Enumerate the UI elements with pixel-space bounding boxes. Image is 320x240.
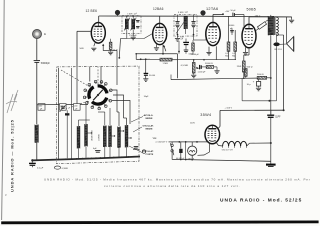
wire lamp top: [191, 142, 193, 146]
wire: [79, 119, 90, 121]
fixed capacitor dark: [65, 113, 69, 115]
resistor 50000 ohm: [206, 66, 213, 69]
wire antenna tap: [37, 104, 59, 106]
svg-text:50 000: 50 000: [149, 75, 156, 77]
bus junction: [71, 158, 73, 160]
svg-text:I M.F. 12ª: I M.F. 12ª: [128, 12, 137, 15]
wire: [192, 51, 194, 54]
wire: [193, 35, 195, 40]
trimmer cap: [136, 21, 140, 22]
bus junction: [118, 156, 120, 158]
wire: [201, 66, 206, 68]
bus junction: [87, 158, 89, 160]
coil IF1 secondary: [132, 19, 135, 30]
switch lever: [170, 143, 174, 155]
resistor diagonal tone: [257, 22, 266, 30]
heater chain loops: [223, 141, 247, 146]
wire: [245, 76, 247, 78]
capacitor 0.1uF dark: [29, 163, 36, 165]
capacitor 50000pF AVC dark: [144, 73, 149, 75]
svg-text:50Ω: 50Ω: [80, 48, 84, 50]
bus junction: [91, 157, 93, 159]
bus junction: [76, 158, 78, 160]
coil L4: [103, 126, 106, 148]
junction: [132, 15, 134, 17]
wire: [185, 142, 187, 160]
junction: [268, 100, 270, 102]
ground: [214, 71, 219, 74]
capacitor 40000pF dark: [179, 149, 182, 153]
wire box left rail: [58, 68, 60, 159]
wire: [110, 49, 112, 51]
svg-text:0,1 μF: 0,1 μF: [37, 168, 44, 170]
resistor 1 Mohm: [160, 58, 172, 61]
svg-text:1.000 pF: 1.000 pF: [198, 72, 207, 74]
wire: [185, 29, 187, 34]
wire: [104, 112, 106, 126]
resistor 12k grid: [109, 42, 112, 49]
wire: [85, 105, 87, 125]
wire: [103, 50, 117, 52]
wire: [202, 15, 204, 17]
bus junction: [82, 158, 84, 160]
ground: [289, 20, 294, 23]
svg-text:50000: 50000: [229, 25, 235, 27]
leader line: [131, 117, 143, 123]
capacitor 100pF dark: [183, 42, 189, 44]
wire cathode: [156, 44, 158, 47]
wire: [132, 16, 134, 18]
tube 12TA6 V3: [206, 22, 220, 45]
tube 35W4 V5: [205, 125, 220, 144]
coil tap: [112, 135, 115, 137]
svg-text:12TA6: 12TA6: [206, 7, 218, 11]
wire: [177, 35, 179, 38]
wire: [177, 15, 179, 22]
tuning arrow: [176, 17, 188, 34]
wire top bus: [99, 15, 292, 18]
wire: [119, 39, 120, 58]
svg-text:12BA6: 12BA6: [153, 7, 164, 11]
resistor 115 ohm: [245, 69, 248, 77]
speaker voice coil: [273, 42, 279, 46]
wire: [275, 16, 277, 18]
coil IF1 primary: [125, 19, 128, 30]
wire: [234, 51, 236, 59]
handwritten pencil marks: [6, 90, 18, 113]
wire switch to node: [113, 95, 124, 118]
wire: [66, 110, 68, 113]
wire B+ horizontal: [220, 109, 284, 111]
wire: [100, 67, 102, 85]
capacitor 200pF box: [38, 104, 45, 111]
wire plate up: [212, 15, 214, 23]
wire: [172, 59, 178, 61]
svg-text:200: 200: [74, 105, 77, 107]
coil tap: [128, 137, 131, 139]
dial lamp: [188, 146, 197, 155]
wire: [135, 54, 137, 60]
leader line: [129, 146, 142, 153]
bus junction: [128, 156, 130, 158]
wire to cone: [280, 43, 287, 45]
svg-text:corrente continua o alternata: corrente continua o alternata dalla rete…: [104, 184, 241, 188]
coil IF2: [184, 16, 187, 29]
switch contacts: [95, 82, 97, 84]
ground: [243, 53, 248, 56]
junction: [177, 34, 179, 36]
wire: [270, 117, 272, 143]
svg-text:+ 105 V: + 105 V: [225, 108, 233, 110]
tube 50B5 V4: [242, 24, 256, 48]
wire: [218, 127, 220, 129]
resistor 500 ohm cathode: [242, 61, 245, 72]
wire: [177, 27, 179, 34]
wire: [243, 55, 245, 61]
capacitor antenna series: [34, 61, 40, 63]
wire plate up: [98, 16, 100, 23]
coil tap: [121, 130, 124, 132]
wire: [109, 108, 111, 126]
svg-text:16μF: 16μF: [144, 96, 150, 98]
svg-text:MEDIE: MEDIE: [146, 118, 153, 120]
wire coil to bus: [109, 147, 111, 158]
wire secondary top: [276, 16, 291, 18]
wire: [118, 112, 120, 126]
wire: [266, 20, 269, 22]
wire: [66, 116, 68, 159]
wire coil to bus: [104, 147, 106, 158]
wire: [110, 39, 112, 42]
wire: [145, 59, 147, 73]
capacitor 50000pF: [230, 31, 234, 32]
heater taps: [222, 146, 224, 148]
junction bus end: [31, 159, 33, 161]
wire: [228, 16, 230, 42]
svg-text:50000pF: 50000pF: [41, 63, 51, 65]
wire secondary bottom: [276, 34, 278, 43]
capacitor IF2 right: [191, 22, 195, 24]
bus junction: [104, 157, 106, 159]
junction: [118, 57, 120, 59]
svg-text:MEDIE: MEDIE: [146, 129, 153, 131]
bus junction: [100, 157, 102, 159]
wire: [71, 68, 73, 158]
wire plate: [219, 110, 221, 126]
capacitor 200pF box 2: [60, 104, 67, 111]
wire: [291, 17, 293, 20]
bus junction: [51, 159, 53, 161]
resistor grid leak: [192, 43, 195, 51]
capacitor: [95, 151, 100, 153]
wire: [180, 142, 182, 149]
wire: [256, 29, 259, 31]
tube 12BA6 V2: [153, 23, 167, 44]
svg-text:0,5 MΩ: 0,5 MΩ: [181, 65, 188, 67]
wire IF1 down: [126, 30, 128, 39]
wire tube to chain: [216, 142, 223, 147]
bus junction: [126, 156, 128, 158]
wire speaker frame: [286, 17, 288, 44]
junction: [162, 53, 164, 55]
junction blob: [115, 10, 120, 15]
wire heater to rail: [250, 142, 271, 144]
rotary band switch S1 ring: [85, 82, 111, 108]
wire primary bottom B+: [270, 35, 272, 78]
wire: [193, 73, 195, 75]
wire: [213, 14, 223, 16]
junction: [36, 159, 38, 161]
junction: [140, 58, 142, 60]
svg-text:⌀ 110/127 V: ⌀ 110/127 V: [156, 140, 168, 143]
wire switch to node: [112, 90, 118, 112]
dashed link: [58, 101, 88, 112]
audio return line: [171, 78, 257, 80]
wire coil to bus: [78, 147, 80, 159]
junction: [270, 142, 272, 144]
wire: [185, 52, 187, 54]
tuning arrow: [124, 18, 130, 31]
wire: [124, 117, 127, 119]
coil antenna L1: [35, 125, 38, 143]
resistor 0.1M diode load: [227, 42, 230, 51]
wire: [89, 67, 91, 82]
wire: [216, 67, 218, 70]
wire lamp bottom: [191, 155, 193, 160]
junction: [283, 109, 285, 111]
capacitor: [184, 50, 189, 52]
svg-text:CORTE: CORTE: [99, 133, 101, 141]
svg-text:500 Ω: 500 Ω: [247, 67, 253, 69]
wire: [192, 40, 194, 43]
wire curve: [198, 152, 210, 155]
wire to 12TA6 grid: [194, 39, 207, 41]
junction: [222, 13, 224, 15]
wire cathode: [248, 48, 250, 55]
tuning arrow: [131, 18, 137, 31]
coil oscillator corte L2: [77, 126, 80, 149]
svg-text:RF 151: RF 151: [275, 49, 283, 51]
capacitor: [61, 107, 65, 108]
page left edge: [2, 0, 5, 220]
wire: [98, 111, 105, 113]
ground: [143, 79, 148, 82]
mains rail: [172, 141, 210, 143]
wire: [235, 14, 245, 16]
wire: [241, 78, 243, 101]
wire: [31, 165, 33, 167]
junction: [178, 51, 180, 53]
wire B+ rail: [283, 35, 285, 110]
capacitor IF2 right2: [191, 25, 195, 27]
svg-text:UNDA RADIO — Mod. 52|25: UNDA RADIO — Mod. 52|25: [9, 119, 14, 192]
wire: [117, 15, 119, 17]
capacitor IF2 left: [175, 22, 179, 24]
wire: [193, 15, 195, 22]
wire: [277, 34, 284, 36]
wire: [205, 36, 207, 40]
wire: [270, 15, 272, 17]
junction: [193, 34, 195, 36]
wire: [270, 101, 272, 115]
ground: [91, 48, 96, 51]
wire: [177, 54, 179, 79]
svg-text:≠: ≠: [5, 193, 7, 197]
resistor 0.5M: [234, 42, 237, 51]
svg-text:200: 200: [39, 105, 42, 107]
bus junction: [133, 156, 135, 158]
wire grid lead: [76, 31, 78, 66]
svg-text:II M.F. 12ª: II M.F. 12ª: [178, 11, 188, 14]
wire: [121, 38, 127, 40]
ground: [108, 52, 113, 55]
wire to switch: [59, 104, 89, 106]
wire: [244, 54, 249, 56]
svg-text:OSCILLAT.: OSCILLAT.: [143, 150, 155, 153]
wire: [270, 78, 272, 101]
AVC line: [136, 53, 177, 55]
wire coil to bus: [36, 143, 38, 161]
potentiometer 0.5M volume: [192, 63, 195, 74]
capacitor small: [134, 147, 139, 149]
wire: [209, 143, 211, 152]
wire switch to node: [112, 101, 130, 125]
transformer core: [273, 17, 275, 36]
svg-text:11PF: 11PF: [275, 117, 281, 119]
wire pot top: [193, 60, 195, 63]
wire: [150, 58, 160, 60]
wire: [185, 39, 187, 43]
wire AVC: [136, 58, 150, 60]
wire: [245, 47, 247, 52]
coil tap: [88, 132, 92, 134]
wire: [258, 86, 260, 88]
wire: [243, 72, 245, 78]
wire: [117, 111, 119, 113]
wire: [193, 27, 195, 34]
coil L5: [109, 126, 112, 148]
resistor 0.5M oval: [54, 166, 60, 169]
bus junction: [109, 157, 111, 159]
ground: [175, 39, 180, 42]
chassis ground pad: [266, 164, 276, 166]
wire plate up: [159, 16, 161, 23]
bottom black bar: [1, 221, 318, 225]
wire: [180, 153, 182, 160]
coil oscillator medie L6: [118, 127, 121, 148]
wire: [126, 118, 128, 125]
svg-text:50000 pF: 50000 pF: [191, 54, 200, 56]
wire plate up: [248, 17, 250, 24]
bus junction: [65, 158, 67, 160]
wire cathode: [94, 43, 95, 46]
svg-text:12 BE6: 12 BE6: [86, 9, 98, 13]
svg-text:ONDE MED: ONDE MED: [92, 130, 94, 141]
wire cathode: [208, 47, 210, 52]
wire: [258, 78, 260, 81]
wire stub: [170, 75, 172, 80]
svg-text:1 MΩ: 1 MΩ: [163, 63, 169, 65]
ground: [154, 48, 159, 51]
wire coil to bus: [126, 147, 128, 157]
svg-text:35W4: 35W4: [200, 113, 211, 117]
coil: [268, 16, 273, 35]
wire: [234, 30, 236, 42]
coil oscillator corte L7: [125, 125, 128, 148]
wire: [270, 110, 272, 115]
wire: [270, 143, 272, 164]
wire grid left: [77, 30, 91, 32]
wire: [171, 142, 173, 144]
svg-text:2000 Ω: 2000 Ω: [257, 74, 264, 76]
svg-text:110V: 110V: [190, 123, 195, 125]
wire: [145, 75, 147, 78]
svg-text:6 8L 05 7 6 H: 6 8L 05 7 6 H: [222, 150, 233, 152]
junction blob: [200, 10, 205, 15]
coil onde medie L3: [85, 124, 88, 147]
dashed link: [61, 70, 90, 87]
capacitor coupling 50pF: [233, 13, 235, 17]
wire: [132, 30, 134, 37]
ground: [191, 75, 196, 78]
wire: [228, 51, 230, 59]
wire oscillator: [116, 51, 118, 85]
ground: [206, 52, 211, 55]
wire mains: [169, 141, 172, 143]
junction: [270, 77, 272, 79]
chassis bus left: [32, 157, 140, 161]
svg-text:CORTE: CORTE: [146, 154, 154, 156]
wire coil to bus: [118, 147, 120, 158]
wire: [78, 120, 80, 126]
resistor 2000 ohm filter: [257, 76, 266, 79]
wire arrow: [164, 46, 166, 52]
wire: [247, 143, 250, 146]
wire inside box: [76, 67, 78, 105]
speaker cone: [287, 37, 294, 52]
wire bus to cap: [31, 160, 33, 162]
capacitor 1000pF dark: [200, 65, 202, 69]
tuner unit dashed enclosure: [57, 66, 140, 164]
ground: [256, 88, 261, 91]
speaker bar: [293, 37, 295, 52]
bus junction: [113, 157, 115, 159]
svg-text:AVVOLG.: AVVOLG.: [144, 114, 154, 117]
svg-text:50B5: 50B5: [247, 7, 257, 11]
capacitor IF2 left2: [175, 25, 179, 27]
wire: [178, 59, 205, 61]
wire filter line: [242, 100, 276, 102]
capacitor 200pF box 3: [74, 104, 81, 111]
svg-text:50 pF: 50 pF: [231, 10, 237, 12]
wire coil to bus: [85, 147, 87, 159]
wire to 12BA6 grid: [127, 38, 144, 40]
dashed shaft link: [97, 67, 99, 84]
wire leg: [215, 46, 217, 59]
wire: [144, 34, 153, 39]
ground: [131, 37, 136, 40]
switch pointer: [93, 90, 103, 100]
wire voice coil return: [276, 46, 278, 101]
wire: [267, 77, 271, 79]
wire: [214, 66, 217, 68]
leader line: [133, 127, 142, 132]
svg-text:12 Ω: 12 Ω: [113, 49, 118, 51]
bus junction: [95, 157, 97, 159]
wire: [133, 149, 140, 151]
junction: [126, 15, 128, 17]
trimmer cap: [136, 27, 140, 28]
